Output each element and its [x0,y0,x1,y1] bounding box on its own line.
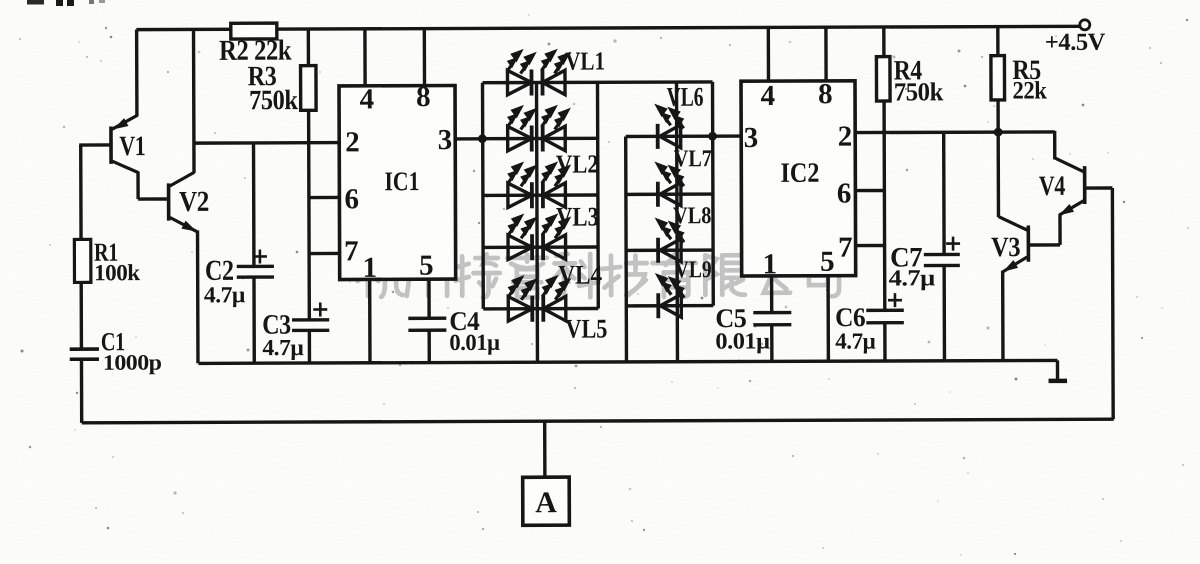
svg-text:VL2: VL2 [556,150,599,179]
svg-text:VL8: VL8 [673,203,712,229]
svg-text:V4: V4 [1039,171,1065,202]
svg-text:4.7μ: 4.7μ [889,265,936,290]
svg-text:0.01μ: 0.01μ [715,328,770,353]
svg-text:6: 6 [837,178,851,210]
svg-text:VL3: VL3 [556,202,599,232]
svg-text:VL7: VL7 [674,146,712,172]
svg-text:750k: 750k [894,77,944,106]
svg-text:V3: V3 [991,232,1021,263]
svg-text:5: 5 [820,246,834,278]
svg-text:3: 3 [438,124,452,156]
svg-text:VL4: VL4 [558,259,602,289]
svg-text:0.01μ: 0.01μ [449,330,500,355]
svg-text:4.7μ: 4.7μ [262,335,304,360]
svg-text:6: 6 [344,183,358,215]
svg-text:8: 8 [818,78,832,110]
svg-text:750k: 750k [249,85,298,116]
svg-text:4.7μ: 4.7μ [835,329,876,354]
svg-text:V2: V2 [179,186,209,218]
svg-text:5: 5 [419,250,433,282]
svg-text:VL5: VL5 [565,313,607,343]
svg-text:A: A [535,486,557,519]
svg-text:VL9: VL9 [675,257,712,283]
svg-text:8: 8 [416,81,430,113]
svg-text:4: 4 [360,83,374,115]
svg-text:4: 4 [760,80,774,112]
svg-text:V1: V1 [119,131,145,162]
svg-text:+4.5V: +4.5V [1045,29,1106,56]
svg-text:1000p: 1000p [103,350,162,375]
svg-text:2: 2 [345,126,359,158]
svg-text:1: 1 [763,248,777,280]
svg-text:VL1: VL1 [565,46,605,75]
svg-text:100k: 100k [94,260,140,285]
svg-text:22k: 22k [1012,77,1047,104]
svg-text:2: 2 [838,121,852,153]
svg-text:IC2: IC2 [780,158,819,189]
svg-text:1: 1 [363,252,377,284]
svg-text:3: 3 [744,122,758,154]
svg-text:IC1: IC1 [384,166,419,196]
svg-text:VL6: VL6 [667,82,704,112]
svg-text:7: 7 [344,235,358,267]
svg-text:4.7μ: 4.7μ [204,282,246,307]
svg-text:7: 7 [838,232,852,264]
